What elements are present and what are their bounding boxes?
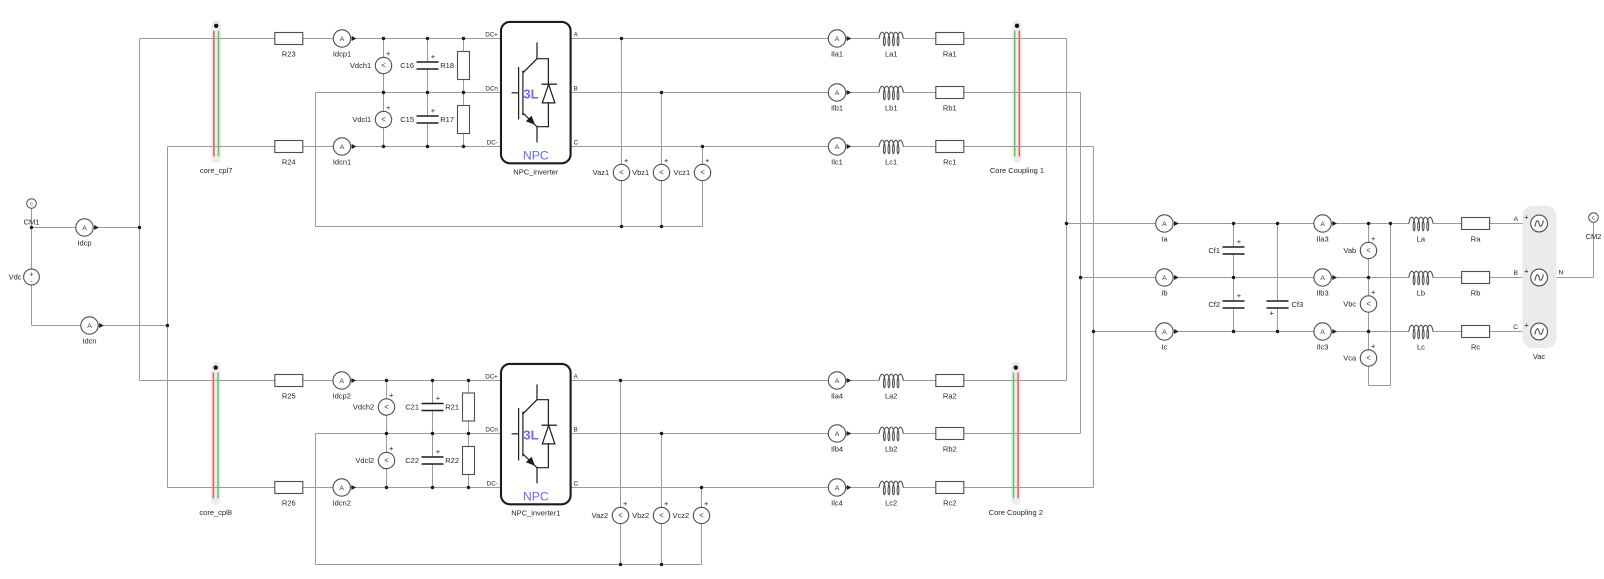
svg-text:Lc2: Lc2 bbox=[885, 499, 897, 508]
source Vac phase C bbox=[1524, 321, 1547, 340]
svg-text:Ilc3: Ilc3 bbox=[1317, 343, 1329, 352]
svg-text:Rb2: Rb2 bbox=[943, 445, 957, 454]
junction top DCn row bbox=[382, 91, 385, 94]
wire top phase C bbox=[571, 146, 1094, 148]
junction Cf3 bottom bbox=[1276, 330, 1279, 333]
svg-text:+: + bbox=[1524, 267, 1529, 276]
resistor Rb bbox=[1462, 272, 1490, 298]
svg-text:A: A bbox=[1320, 329, 1325, 336]
junction top DC- row bbox=[382, 145, 385, 148]
svg-text:Lb2: Lb2 bbox=[885, 445, 898, 454]
resistor Ra2 bbox=[936, 375, 964, 401]
svg-text:Ilc1: Ilc1 bbox=[831, 158, 843, 167]
svg-text:+: + bbox=[664, 499, 669, 508]
ammeter Ia bbox=[1156, 215, 1179, 244]
svg-text:DCn: DCn bbox=[485, 86, 498, 93]
svg-text:Rb1: Rb1 bbox=[943, 104, 957, 113]
wire Vac A stub bbox=[1548, 223, 1553, 225]
svg-text:DC+: DC+ bbox=[485, 374, 498, 381]
wire Vca return riser bbox=[1390, 224, 1392, 386]
wire top DC+ row bbox=[140, 38, 502, 40]
junction bottom DCn row bbox=[467, 432, 470, 435]
voltmeter Vaz2 bbox=[592, 499, 629, 527]
junction Cf3 top bbox=[1276, 222, 1279, 225]
svg-text:R26: R26 bbox=[282, 499, 296, 508]
svg-text:+: + bbox=[436, 394, 441, 403]
svg-text:R24: R24 bbox=[282, 158, 296, 167]
junction Vcz2/C bbox=[700, 486, 703, 489]
wire Idcn row bbox=[32, 325, 168, 327]
wire Vbz2 branch bbox=[661, 434, 663, 565]
transformer core_cpl7 bbox=[200, 20, 233, 175]
voltmeter Vdch2 bbox=[353, 391, 395, 419]
voltmeter Vbz1 bbox=[632, 156, 670, 184]
svg-text:Ra: Ra bbox=[1471, 235, 1481, 244]
junction bottom DCn row bbox=[431, 432, 434, 435]
svg-text:DC-: DC- bbox=[487, 481, 498, 488]
junction bottom DC- row bbox=[431, 486, 434, 489]
resistor Rb2 bbox=[936, 428, 964, 454]
svg-text:+: + bbox=[1237, 291, 1242, 300]
svg-text:A: A bbox=[835, 431, 840, 438]
resistor Rc1 bbox=[936, 141, 964, 167]
wire bottom cap branch bbox=[432, 381, 434, 488]
capacitor C21 bbox=[405, 394, 444, 412]
svg-text:Vbz2: Vbz2 bbox=[632, 511, 649, 520]
junction top DC+ row bbox=[462, 37, 465, 40]
svg-text:Vcz1: Vcz1 bbox=[674, 168, 691, 177]
wire Cf1 branch bbox=[1233, 224, 1235, 278]
junction bottom DCn row bbox=[385, 432, 388, 435]
transformer core_cpl8 bbox=[199, 362, 232, 517]
svg-text:Idcp: Idcp bbox=[77, 239, 91, 248]
svg-text:Core Coupling 1: Core Coupling 1 bbox=[990, 166, 1044, 175]
ammeter Idcp bbox=[76, 219, 99, 248]
wire Vac neutral bus bbox=[1552, 224, 1554, 332]
svg-text:<: < bbox=[384, 456, 389, 465]
svg-text:Vab: Vab bbox=[1343, 246, 1356, 255]
svg-text:<: < bbox=[700, 168, 705, 177]
inductor Lb2 bbox=[879, 427, 904, 454]
svg-text:+: + bbox=[624, 156, 629, 165]
svg-text:A: A bbox=[1162, 329, 1167, 336]
svg-text:Vca: Vca bbox=[1343, 354, 1357, 363]
ammeter Ic bbox=[1156, 323, 1179, 352]
svg-text:core_cpl7: core_cpl7 bbox=[200, 166, 233, 175]
svg-text:A: A bbox=[835, 36, 840, 43]
svg-text:DC+: DC+ bbox=[485, 32, 498, 39]
ammeter Idcp2 bbox=[333, 372, 356, 401]
junction top DC- row bbox=[462, 145, 465, 148]
svg-text:+: + bbox=[431, 52, 436, 61]
svg-text:NPC: NPC bbox=[523, 489, 549, 503]
svg-text:CM2: CM2 bbox=[1586, 232, 1602, 241]
svg-text:core_cpl8: core_cpl8 bbox=[199, 508, 232, 517]
svg-text:Ila3: Ila3 bbox=[1317, 235, 1329, 244]
svg-text:Ilc4: Ilc4 bbox=[831, 499, 843, 508]
ammeter Idcn1 bbox=[333, 138, 356, 167]
svg-text:+: + bbox=[664, 156, 669, 165]
wire top DCn drop bbox=[315, 93, 317, 227]
ammeter Idcn2 bbox=[333, 479, 356, 508]
svg-text:Cf3: Cf3 bbox=[1292, 300, 1304, 309]
junction busB mid bbox=[1079, 276, 1082, 279]
wire bus phase C bbox=[1093, 147, 1095, 488]
source Vac phase B bbox=[1524, 267, 1547, 286]
junction bottom DC- row bbox=[467, 486, 470, 489]
svg-text:+: + bbox=[705, 156, 710, 165]
junction Vaz2/A bbox=[619, 379, 622, 382]
wire bus phase A bbox=[1066, 39, 1068, 381]
svg-text:C: C bbox=[574, 140, 579, 147]
svg-text:La: La bbox=[1417, 235, 1426, 244]
wire Vca return bottom bbox=[1369, 385, 1391, 387]
source Vac phase A bbox=[1524, 213, 1547, 232]
wire Vcz1 branch bbox=[702, 147, 704, 227]
svg-text:C: C bbox=[1513, 324, 1518, 331]
voltmeter Vaz1 bbox=[593, 156, 630, 184]
ammeter Ilb3 bbox=[1314, 269, 1337, 298]
svg-text:C15: C15 bbox=[400, 115, 414, 124]
wire line voltmeter chain bbox=[1368, 224, 1370, 386]
wire CM2 drop bbox=[1593, 218, 1595, 278]
svg-text:Ib: Ib bbox=[1161, 289, 1167, 298]
svg-text:+: + bbox=[1371, 288, 1376, 297]
inductor Lc bbox=[1408, 325, 1433, 352]
svg-text:+: + bbox=[1524, 213, 1529, 222]
svg-text:La1: La1 bbox=[885, 50, 898, 59]
svg-text:+: + bbox=[704, 499, 709, 508]
svg-text:A: A bbox=[339, 485, 344, 492]
capacitor Cf1 bbox=[1208, 237, 1245, 255]
wire bottom phase A bbox=[571, 380, 1067, 382]
svg-text:NPC_inverter1: NPC_inverter1 bbox=[511, 508, 560, 517]
junction Cf1/Cf2 bbox=[1232, 276, 1235, 279]
transformer Core Coupling 1 bbox=[990, 20, 1044, 175]
svg-text:3L: 3L bbox=[523, 428, 538, 443]
wire top DC- row bbox=[168, 146, 502, 148]
svg-text:Lb: Lb bbox=[1417, 289, 1425, 298]
voltmeter Vcz1 bbox=[674, 156, 711, 184]
wire mid row C bbox=[1094, 331, 1532, 333]
svg-text:A: A bbox=[1320, 275, 1325, 282]
ammeter Ilc4 bbox=[828, 479, 851, 508]
capacitor C22 bbox=[405, 447, 444, 465]
svg-text:Vdch2: Vdch2 bbox=[353, 403, 374, 412]
svg-text:Vdcl2: Vdcl2 bbox=[355, 456, 374, 465]
voltmeter Vdcl2 bbox=[355, 444, 394, 472]
svg-text:Vaz2: Vaz2 bbox=[592, 511, 609, 520]
svg-text:<: < bbox=[1366, 246, 1371, 255]
wire top res branch bbox=[463, 39, 465, 147]
svg-text:Cf1: Cf1 bbox=[1208, 246, 1220, 255]
wire bus DC- left bbox=[167, 147, 169, 488]
wire Vdc to Idcn row bbox=[31, 277, 33, 326]
svg-text:Lc1: Lc1 bbox=[885, 158, 897, 167]
resistor R23 bbox=[275, 33, 303, 59]
junction Vab/A bbox=[1367, 222, 1370, 225]
source Vdc bbox=[9, 269, 40, 285]
junction bottom DC- row bbox=[385, 486, 388, 489]
svg-text:<: < bbox=[381, 61, 386, 70]
resistor R24 bbox=[275, 141, 303, 167]
svg-text:+: + bbox=[1237, 237, 1242, 246]
svg-text:A: A bbox=[87, 323, 92, 330]
svg-text:A: A bbox=[835, 90, 840, 97]
svg-text:NPC: NPC bbox=[523, 148, 549, 162]
svg-text:La2: La2 bbox=[885, 392, 898, 401]
junction busC mid bbox=[1092, 330, 1095, 333]
svg-text:Ilb3: Ilb3 bbox=[1317, 289, 1329, 298]
voltmeter Vab bbox=[1343, 234, 1376, 262]
inductor Lc1 bbox=[879, 140, 904, 167]
svg-text:+: + bbox=[389, 444, 394, 453]
resistor R22 bbox=[445, 447, 474, 475]
wire top Vdc-meters branch bbox=[383, 39, 385, 147]
resistor R17 bbox=[440, 106, 469, 134]
svg-text:+: + bbox=[386, 49, 391, 58]
junction busA mid bbox=[1065, 222, 1068, 225]
svg-text:N: N bbox=[1559, 270, 1564, 277]
svg-text:Vaz1: Vaz1 bbox=[593, 168, 610, 177]
wire top cap branch bbox=[427, 39, 429, 147]
junction bus2/Idcn bbox=[166, 324, 169, 327]
svg-text:R22: R22 bbox=[445, 456, 459, 465]
wire top z bus bbox=[316, 226, 703, 228]
junction Vbc/B bbox=[1367, 276, 1370, 279]
port CM2 bbox=[1586, 213, 1602, 241]
junction Vbz1/z bbox=[660, 225, 663, 228]
svg-text:Ra2: Ra2 bbox=[943, 392, 957, 401]
svg-text:Vbz1: Vbz1 bbox=[632, 168, 649, 177]
svg-text:<: < bbox=[381, 115, 386, 124]
svg-text:c: c bbox=[1592, 216, 1595, 222]
svg-text:A: A bbox=[82, 225, 87, 232]
svg-text:Vdch1: Vdch1 bbox=[350, 61, 371, 70]
svg-text:B: B bbox=[574, 86, 578, 93]
svg-text:Lb1: Lb1 bbox=[885, 104, 898, 113]
ammeter Idcn bbox=[81, 317, 104, 346]
junction Vaz2/z bbox=[619, 563, 622, 566]
inductor La2 bbox=[879, 374, 904, 401]
svg-text:+: + bbox=[389, 391, 394, 400]
svg-text:+: + bbox=[1270, 309, 1275, 318]
junction Cf1 top bbox=[1232, 222, 1235, 225]
svg-text:Core Coupling 2: Core Coupling 2 bbox=[989, 508, 1043, 517]
svg-text:A: A bbox=[835, 485, 840, 492]
svg-text:Idcn2: Idcn2 bbox=[333, 499, 351, 508]
svg-text:C: C bbox=[574, 481, 579, 488]
junction Vaz1/A bbox=[620, 37, 623, 40]
inductor Lb1 bbox=[879, 86, 904, 113]
svg-text:Ilb4: Ilb4 bbox=[831, 445, 843, 454]
ammeter Ilc3 bbox=[1314, 323, 1337, 352]
ammeter Ila3 bbox=[1314, 215, 1337, 244]
svg-text:<: < bbox=[659, 511, 664, 520]
svg-text:NPC_inverter: NPC_inverter bbox=[513, 167, 559, 176]
junction Vca return/A bbox=[1389, 222, 1392, 225]
inductor La1 bbox=[879, 32, 904, 59]
svg-text:+: + bbox=[623, 499, 628, 508]
wire Vbz1 branch bbox=[661, 93, 663, 227]
resistor Rc bbox=[1462, 326, 1490, 352]
subsystem NPC_inverter U1 bbox=[485, 22, 578, 176]
ammeter Ilc1 bbox=[828, 138, 851, 167]
wire Idcp row bbox=[32, 227, 140, 229]
svg-text:+: + bbox=[1371, 342, 1376, 351]
svg-text:Vcz2: Vcz2 bbox=[673, 511, 690, 520]
wire mid row B bbox=[1081, 277, 1532, 279]
wire top phase A bbox=[571, 38, 1067, 40]
subsystem NPC_inverter1 U2 bbox=[485, 364, 578, 517]
svg-text:C16: C16 bbox=[400, 61, 414, 70]
svg-text:A: A bbox=[835, 144, 840, 151]
junction top DC- row bbox=[426, 145, 429, 148]
voltmeter Vcz2 bbox=[673, 499, 710, 527]
wire neutral N bbox=[1553, 277, 1594, 279]
svg-text:CM1: CM1 bbox=[24, 218, 40, 227]
voltmeter Vbz2 bbox=[632, 499, 670, 527]
svg-text:Rb: Rb bbox=[1471, 289, 1481, 298]
svg-text:+: + bbox=[431, 106, 436, 115]
svg-text:Ic: Ic bbox=[1161, 343, 1167, 352]
wire bottom DCn drop bbox=[315, 434, 317, 565]
svg-text:3L: 3L bbox=[523, 87, 538, 102]
svg-text:B: B bbox=[1514, 270, 1519, 277]
svg-text:Ra1: Ra1 bbox=[943, 50, 957, 59]
svg-text:A: A bbox=[835, 378, 840, 385]
wire CM1 to Vdc bbox=[31, 204, 33, 278]
svg-text:+: + bbox=[1524, 321, 1529, 330]
resistor Ra bbox=[1462, 218, 1490, 244]
svg-text:Idcn: Idcn bbox=[82, 337, 96, 346]
svg-text:A: A bbox=[1162, 275, 1167, 282]
svg-text:C21: C21 bbox=[405, 403, 419, 412]
junction Vbz1/B bbox=[660, 91, 663, 94]
voltmeter Vbc bbox=[1343, 288, 1376, 316]
inductor Lc2 bbox=[879, 481, 904, 508]
inductor La bbox=[1408, 217, 1433, 244]
wire Vac C stub bbox=[1548, 331, 1553, 333]
svg-text:<: < bbox=[1366, 354, 1371, 363]
wire bottom z bus bbox=[316, 564, 702, 566]
ammeter Ilb1 bbox=[828, 84, 851, 113]
transformer Core Coupling 2 bbox=[989, 362, 1043, 517]
wire Vcz2 branch bbox=[701, 488, 703, 565]
wire bottom Vdc-meters branch bbox=[386, 381, 388, 488]
wire top phase B bbox=[571, 92, 1081, 94]
port CM1 bbox=[24, 199, 40, 227]
junction Cf2 bottom bbox=[1232, 330, 1235, 333]
wire top DCn row bbox=[316, 92, 502, 94]
svg-text:<: < bbox=[1366, 300, 1371, 309]
svg-text:Vbc: Vbc bbox=[1343, 300, 1356, 309]
svg-text:R18: R18 bbox=[440, 61, 454, 70]
capacitor C15 bbox=[400, 106, 439, 124]
resistor Rc2 bbox=[936, 482, 964, 508]
wire bottom DC- row bbox=[168, 487, 502, 489]
junction top DCn row bbox=[462, 91, 465, 94]
svg-text:Vac: Vac bbox=[1533, 352, 1546, 361]
resistor R26 bbox=[275, 482, 303, 508]
source group Vac bbox=[1523, 206, 1557, 348]
wire bottom phase B bbox=[571, 433, 1081, 435]
resistor Rb1 bbox=[936, 87, 964, 113]
svg-text:c: c bbox=[30, 202, 33, 208]
wire bottom phase C bbox=[571, 487, 1094, 489]
ammeter Ib bbox=[1156, 269, 1179, 298]
svg-text:R25: R25 bbox=[282, 392, 296, 401]
voltmeter Vdch1 bbox=[350, 49, 392, 77]
wire Vaz1 branch bbox=[621, 39, 623, 227]
svg-text:+: + bbox=[1371, 234, 1376, 243]
svg-text:+: + bbox=[386, 103, 391, 112]
svg-text:<: < bbox=[619, 168, 624, 177]
svg-text:DC-: DC- bbox=[487, 140, 498, 147]
svg-text:<: < bbox=[384, 403, 389, 412]
svg-text:Cf2: Cf2 bbox=[1208, 300, 1220, 309]
svg-text:Idcp1: Idcp1 bbox=[333, 50, 351, 59]
svg-text:Rc: Rc bbox=[1471, 343, 1480, 352]
junction Vbz2/B bbox=[660, 432, 663, 435]
junction top DC+ row bbox=[426, 37, 429, 40]
wire bottom DC+ row bbox=[140, 380, 502, 382]
svg-text:C22: C22 bbox=[405, 456, 419, 465]
junction bottom DC+ row bbox=[385, 379, 388, 382]
resistor R25 bbox=[275, 375, 303, 401]
junction Vcz1/C bbox=[701, 145, 704, 148]
voltmeter Vdcl1 bbox=[352, 103, 391, 131]
svg-text:Idcn1: Idcn1 bbox=[333, 158, 351, 167]
junction Vaz1/z bbox=[620, 225, 623, 228]
junction Vca/C bbox=[1367, 330, 1370, 333]
svg-text:Ila4: Ila4 bbox=[831, 392, 843, 401]
resistor R18 bbox=[440, 52, 469, 80]
svg-text:A: A bbox=[1162, 221, 1167, 228]
svg-text:R17: R17 bbox=[440, 115, 454, 124]
svg-text:Ilb1: Ilb1 bbox=[831, 104, 843, 113]
svg-text:Lc: Lc bbox=[1417, 343, 1425, 352]
voltmeter Vca bbox=[1343, 342, 1376, 370]
junction top DCn row bbox=[426, 91, 429, 94]
junction bottom DC+ row bbox=[467, 379, 470, 382]
wire Cf2 branch bbox=[1233, 278, 1235, 332]
svg-text:A: A bbox=[1514, 216, 1519, 223]
wire Vaz2 branch bbox=[620, 381, 622, 565]
svg-text:+: + bbox=[436, 447, 441, 456]
wire bus phase B bbox=[1080, 93, 1082, 434]
svg-text:DCn: DCn bbox=[485, 427, 498, 434]
junction bus1/Idcp bbox=[138, 226, 141, 229]
svg-text:Vdc: Vdc bbox=[9, 273, 22, 282]
svg-text:Rc2: Rc2 bbox=[943, 499, 956, 508]
svg-text:Ila1: Ila1 bbox=[831, 50, 843, 59]
wire mid row A bbox=[1067, 223, 1532, 225]
ammeter Ila1 bbox=[828, 30, 851, 59]
ammeter Ilb4 bbox=[828, 425, 851, 454]
svg-text:A: A bbox=[340, 36, 345, 43]
wire bottom res branch bbox=[468, 381, 470, 488]
svg-text:A: A bbox=[340, 144, 345, 151]
inductor Lb bbox=[1408, 271, 1433, 298]
wire Cf3 branch bbox=[1277, 224, 1279, 332]
wire Vac B stub bbox=[1548, 277, 1553, 279]
svg-text:<: < bbox=[659, 168, 664, 177]
wire bottom DCn row bbox=[316, 433, 502, 435]
svg-text:Vdcl1: Vdcl1 bbox=[352, 115, 371, 124]
svg-text:R21: R21 bbox=[445, 403, 459, 412]
svg-text:<: < bbox=[618, 511, 623, 520]
